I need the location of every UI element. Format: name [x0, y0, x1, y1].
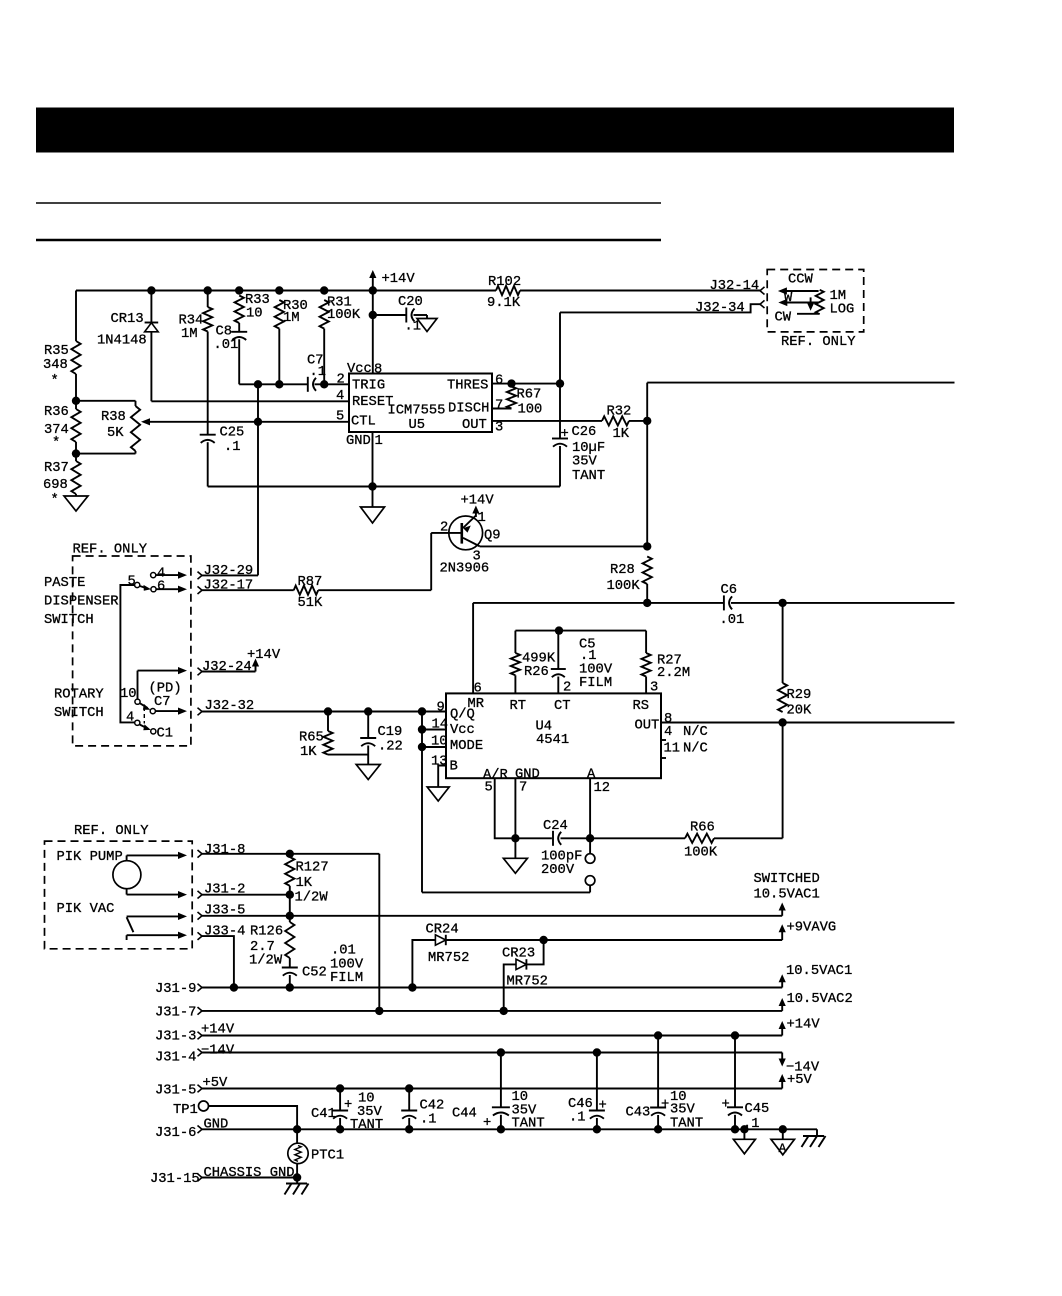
capacitor C7	[307, 354, 326, 392]
junction GND-TP1	[293, 1125, 301, 1133]
wire J33-5 net	[202, 915, 782, 917]
svg-text:8: 8	[374, 363, 382, 378]
svg-text:5: 5	[336, 410, 344, 425]
pin 14 label	[432, 718, 449, 733]
junction J31-9-J33-4	[230, 983, 238, 991]
wire Q9 base	[430, 533, 432, 590]
svg-text:C20: C20	[398, 295, 423, 310]
resistor R28	[607, 557, 652, 595]
ground bottom	[733, 1129, 755, 1154]
svg-text:+: +	[344, 1098, 352, 1113]
svg-text:2: 2	[337, 372, 345, 387]
resistor R30	[275, 299, 308, 384]
svg-text:+: +	[483, 1116, 491, 1131]
svg-text:51K: 51K	[298, 596, 324, 611]
svg-text:SWITCH: SWITCH	[54, 706, 104, 721]
svg-text:SWITCHED: SWITCHED	[754, 872, 820, 887]
wire GND net	[202, 1128, 817, 1130]
label CHASSIS GND	[204, 1166, 295, 1181]
connector J31-3	[155, 1030, 202, 1045]
switch S2 contact 10	[120, 687, 140, 704]
svg-text:*: *	[51, 492, 59, 508]
svg-text:R32: R32	[607, 405, 632, 420]
wire Vcc column	[372, 291, 374, 374]
wire J31-2 net	[202, 894, 290, 896]
switch box REF ONLY label	[73, 543, 148, 558]
pin 3 label U4	[650, 681, 658, 696]
capacitor C8	[214, 323, 248, 353]
resistor R37	[43, 461, 81, 508]
junction J31-9-CR24	[408, 983, 416, 991]
junction CR24-CR23	[539, 936, 547, 944]
wire J31-9 net	[202, 987, 782, 989]
svg-text:TANT: TANT	[572, 469, 605, 484]
wire CR23 net	[504, 940, 544, 1011]
label Vcc 8	[347, 362, 382, 378]
wire contact4 out	[156, 572, 187, 579]
wire DISCH pin	[492, 408, 512, 410]
switch pik vac bottom	[127, 932, 187, 940]
junction J31-3-C43	[654, 1031, 662, 1039]
svg-text:R87: R87	[298, 575, 323, 590]
node 10.5VAC2	[779, 992, 853, 1011]
svg-text:R126: R126	[250, 925, 283, 940]
svg-text:+14V: +14V	[382, 272, 416, 287]
wire J32-24 net	[202, 671, 256, 673]
resistor R102	[487, 275, 521, 311]
svg-text:10.5VAC2: 10.5VAC2	[787, 992, 853, 1007]
junction R127-J31-2	[286, 891, 294, 899]
svg-text:1N4148: 1N4148	[97, 334, 147, 349]
svg-text:R37: R37	[44, 461, 69, 476]
resistor R34	[179, 291, 213, 343]
capacitor C24	[541, 819, 582, 878]
transistor Q9 2N3906	[431, 494, 500, 577]
junction rail-R34	[204, 286, 212, 294]
svg-text:C24: C24	[543, 819, 568, 834]
svg-text:CCW: CCW	[788, 273, 814, 288]
svg-text:1: 1	[478, 511, 486, 526]
svg-text:2.2M: 2.2M	[657, 666, 690, 681]
junction C5 top	[555, 626, 563, 634]
svg-text:MODE: MODE	[450, 739, 483, 754]
switch S1 contact 5	[128, 575, 140, 590]
svg-text:−14V: −14V	[201, 1044, 235, 1059]
connector J32-29	[198, 564, 254, 579]
pin 4 stub	[661, 739, 666, 741]
connector J32-24	[198, 660, 252, 675]
pin 3 label	[495, 421, 503, 436]
pin 5 label U4	[485, 781, 493, 796]
svg-text:5K: 5K	[107, 426, 124, 441]
switch S2 contact C1	[151, 727, 173, 742]
pin 11 stub	[661, 757, 666, 759]
resistor R66	[684, 821, 783, 861]
resistor R29	[778, 603, 812, 719]
svg-text:THRES: THRES	[447, 379, 488, 394]
node +14V arrow	[369, 270, 415, 291]
capacitor C45	[722, 1036, 770, 1133]
pin 2 label U4	[563, 681, 571, 696]
junction R35-R36	[72, 397, 80, 405]
pin 10 label	[431, 735, 448, 750]
ground U5 gnd	[361, 487, 385, 524]
label +14V rail	[201, 1023, 235, 1038]
svg-text:+: +	[722, 1098, 730, 1113]
wire J32-34 net	[560, 304, 760, 312]
svg-text:J32-17: J32-17	[204, 579, 254, 594]
junction Q9 collector node	[643, 542, 651, 550]
svg-text:100K: 100K	[607, 579, 641, 594]
junction OUT-R29	[778, 718, 786, 726]
diode CR23	[502, 947, 548, 990]
pin 7 label	[495, 398, 503, 413]
connector J32-32	[198, 699, 255, 715]
junction THRES-C26col	[556, 379, 564, 387]
svg-text:RT: RT	[510, 699, 527, 714]
wire R38 bottom	[76, 451, 136, 454]
svg-text:J31-8: J31-8	[204, 843, 245, 858]
svg-text:C6: C6	[721, 583, 738, 598]
svg-text:100K: 100K	[684, 846, 718, 861]
ground U4 gnd	[503, 838, 527, 873]
junction CTL-J32-29	[254, 418, 262, 426]
svg-text:.1: .1	[224, 440, 241, 455]
junction rail-+14V	[369, 286, 377, 294]
svg-text:B: B	[450, 760, 458, 775]
svg-text:14: 14	[432, 718, 449, 733]
pin 2 label	[337, 372, 345, 387]
node SWITCHED 10.5VAC1	[754, 872, 820, 916]
connector J31-9	[155, 982, 202, 997]
svg-text:RS: RS	[633, 699, 650, 714]
svg-text:10.5VAC1: 10.5VAC1	[754, 888, 820, 903]
svg-text:PASTE: PASTE	[44, 576, 85, 591]
label GND rail	[204, 1118, 229, 1133]
wire to test pins	[422, 885, 590, 892]
svg-text:R66: R66	[690, 821, 715, 836]
resistor R32	[602, 405, 631, 443]
wire switch common	[120, 585, 134, 722]
title bar	[36, 108, 954, 153]
svg-text:+14V: +14V	[247, 648, 281, 663]
wire J31-15 net	[202, 1177, 297, 1179]
svg-text:J31-7: J31-7	[155, 1006, 196, 1021]
svg-text:DISPENSER: DISPENSER	[44, 595, 119, 610]
svg-text:CR24: CR24	[426, 923, 459, 938]
wire J32-32 to pins	[421, 712, 423, 893]
svg-text:1: 1	[375, 434, 383, 449]
svg-text:7: 7	[495, 398, 503, 413]
junction GND-C42	[405, 1125, 413, 1133]
wire contactC7 out	[155, 708, 187, 715]
label -14V rail	[201, 1044, 235, 1059]
svg-text:11: 11	[664, 742, 681, 757]
switch S1 blade	[140, 585, 151, 591]
svg-text:+5V: +5V	[787, 1073, 813, 1088]
svg-text:35V: 35V	[670, 1103, 696, 1118]
junction C6 node left	[643, 599, 651, 607]
wire J31-4 net	[202, 1052, 782, 1054]
svg-text:4: 4	[664, 725, 672, 740]
wire Q9 collector	[480, 545, 647, 547]
svg-text:REF. ONLY: REF. ONLY	[74, 824, 149, 839]
svg-text:.1: .1	[743, 1117, 760, 1132]
wire pin7 GND	[514, 778, 516, 838]
svg-text:CR23: CR23	[502, 947, 535, 962]
svg-text:R67: R67	[517, 388, 542, 403]
svg-text:DISCH: DISCH	[448, 402, 489, 417]
label PD	[149, 681, 182, 697]
svg-text:TANT: TANT	[350, 1118, 383, 1133]
junction R32 node	[643, 417, 651, 425]
junction rail-R31	[320, 286, 328, 294]
node +14V J32-24	[247, 648, 281, 672]
wire TRIG net	[239, 383, 349, 385]
connector J33-4	[198, 925, 246, 940]
pin 6 label	[495, 373, 503, 388]
wire TP1	[209, 1106, 298, 1129]
svg-text:CTL: CTL	[351, 415, 376, 430]
junction J31-8-R127	[286, 850, 294, 858]
svg-text:C26: C26	[572, 425, 597, 440]
svg-text:R36: R36	[44, 405, 69, 420]
svg-text:TANT: TANT	[670, 1117, 703, 1132]
junction rail-CR13	[147, 286, 155, 294]
svg-text:R28: R28	[610, 563, 635, 578]
svg-text:10.5VAC1: 10.5VAC1	[786, 964, 852, 979]
resistor R36	[44, 405, 81, 451]
op-amp U5 ICM7555	[346, 374, 492, 450]
junction GND-C43	[654, 1125, 662, 1133]
resistor R26	[511, 631, 556, 694]
pin 4 label U4	[664, 724, 708, 740]
svg-text:200V: 200V	[541, 863, 575, 878]
junction J33-5-R126	[286, 912, 294, 920]
label rotary switch	[54, 688, 104, 722]
svg-text:3: 3	[650, 681, 658, 696]
svg-text:TP1: TP1	[173, 1103, 198, 1118]
resistor R31	[320, 296, 361, 385]
diode CR24	[426, 923, 470, 967]
svg-text:J31-6: J31-6	[155, 1126, 196, 1141]
svg-text:C43: C43	[626, 1106, 651, 1121]
svg-text:+: +	[561, 427, 569, 442]
connector J31-6	[155, 1126, 202, 1142]
svg-text:J31-5: J31-5	[155, 1084, 196, 1099]
svg-text:Vcc: Vcc	[450, 723, 475, 738]
junction GND-C41	[336, 1125, 344, 1133]
svg-text:J31-9: J31-9	[155, 982, 196, 997]
switch S1 contact 6	[151, 580, 165, 595]
junction pin14	[418, 725, 426, 733]
wire OUT U4 net	[661, 722, 955, 724]
svg-text:CT: CT	[554, 699, 571, 714]
svg-text:LOG: LOG	[830, 303, 855, 318]
svg-text:C7: C7	[154, 695, 171, 710]
wire pin 14 Vcc	[422, 729, 446, 731]
pin 8 label U4	[664, 712, 672, 727]
svg-text:U5: U5	[409, 418, 426, 433]
junction TRIG-R30	[275, 380, 283, 388]
svg-text:TRIG: TRIG	[352, 379, 385, 394]
ground left column	[64, 496, 88, 511]
junction GND-gnd	[740, 1125, 748, 1133]
svg-text:9: 9	[437, 701, 445, 716]
pik box REF ONLY label	[74, 824, 149, 839]
junction J32-32-R65	[324, 707, 332, 715]
wire +14V top rail	[76, 290, 760, 292]
svg-text:C42: C42	[420, 1099, 445, 1114]
svg-text:R65: R65	[299, 731, 324, 746]
resistor R65	[299, 712, 333, 761]
wire THRES net	[492, 383, 560, 385]
connector J33-5	[198, 904, 246, 920]
capacitor C42	[401, 1089, 444, 1130]
svg-text:FILM: FILM	[330, 971, 363, 986]
svg-text:100K: 100K	[327, 308, 361, 323]
label +5V rail	[203, 1076, 229, 1091]
wire J31-3 net	[202, 1035, 782, 1037]
resistor R35	[43, 341, 81, 389]
svg-text:J33-4: J33-4	[204, 925, 245, 940]
svg-text:R29: R29	[787, 688, 812, 703]
node +14V right	[779, 1018, 821, 1036]
svg-text:.01: .01	[214, 338, 239, 353]
svg-text:Vcc: Vcc	[347, 362, 372, 377]
svg-text:13: 13	[431, 755, 448, 770]
svg-text:4541: 4541	[536, 733, 569, 748]
switch S2 contact C7	[150, 709, 155, 714]
wire J33-4 net	[202, 936, 234, 987]
svg-text:N/C: N/C	[683, 741, 708, 757]
wire R29-R66	[782, 723, 784, 839]
svg-text:A: A	[779, 1141, 787, 1156]
wire RT-RS top	[515, 630, 646, 632]
wire R65-C19 bottom	[328, 746, 368, 765]
junction rail-R30	[275, 286, 283, 294]
wire pin 10 MODE	[422, 746, 446, 748]
wire MR pin6	[472, 603, 474, 694]
switch pik vac blade	[127, 917, 134, 932]
svg-text:.22: .22	[378, 740, 403, 755]
junction pin10	[418, 743, 426, 751]
svg-text:OUT: OUT	[462, 418, 487, 433]
pin 6 label U4	[474, 682, 482, 697]
svg-text:1K: 1K	[613, 427, 630, 442]
connector J31-7	[155, 1006, 202, 1021]
svg-text:J31-4: J31-4	[155, 1051, 196, 1066]
svg-text:C1: C1	[157, 727, 174, 742]
junction GND-A	[779, 1125, 787, 1133]
junction J31-3-C45	[731, 1031, 739, 1039]
svg-text:J31-3: J31-3	[155, 1030, 196, 1045]
junction GND-C45	[731, 1125, 739, 1133]
wire RESET net	[151, 400, 349, 402]
svg-text:1/2W: 1/2W	[295, 890, 329, 906]
capacitor C5	[551, 631, 613, 694]
svg-text:5: 5	[128, 575, 136, 590]
wire pin5 A/R	[495, 778, 552, 838]
wire OUT U5 net	[492, 420, 647, 422]
svg-text:2: 2	[440, 521, 448, 536]
connector J31-5	[155, 1084, 202, 1099]
svg-text:MR752: MR752	[428, 951, 469, 966]
svg-text:20K: 20K	[787, 704, 813, 719]
switch S1 contact 4	[151, 567, 166, 582]
switch gang link	[143, 707, 145, 724]
wire C26 column	[559, 312, 561, 486]
wire PD branch	[138, 667, 188, 699]
svg-text:PTC1: PTC1	[311, 1149, 344, 1164]
connector J31-15	[150, 1172, 202, 1187]
wire +9VAVG net	[412, 940, 782, 988]
junction J32-32-C19	[364, 707, 372, 715]
svg-text:OUT: OUT	[635, 719, 660, 734]
svg-text:J32-14: J32-14	[710, 279, 760, 294]
wire R32node-R28	[646, 421, 648, 547]
svg-text:+9VAVG: +9VAVG	[787, 921, 837, 936]
wire CTL net	[149, 421, 349, 423]
svg-text:PIK PUMP: PIK PUMP	[57, 850, 123, 865]
resistor R87	[294, 575, 323, 611]
label J32-29 wire	[0, 0, 1, 1]
svg-text:9.1K: 9.1K	[487, 296, 521, 311]
junction J31-4-C46	[593, 1048, 601, 1056]
connector J31-4	[155, 1049, 202, 1066]
connector J31-8	[198, 843, 246, 858]
svg-text:ICM7555: ICM7555	[388, 404, 446, 419]
capacitor C20	[373, 295, 427, 335]
svg-text:C45: C45	[745, 1102, 770, 1117]
ground pin13	[427, 787, 449, 801]
wire J32-14 net	[520, 290, 760, 292]
svg-text:C52: C52	[302, 966, 327, 981]
wire pump top	[127, 852, 187, 861]
resistor R33	[235, 293, 270, 323]
svg-text:.01: .01	[720, 613, 745, 628]
junction J32-32-vert	[418, 707, 426, 715]
svg-text:GND: GND	[346, 434, 371, 449]
svg-text:6: 6	[474, 682, 482, 697]
svg-text:REF. ONLY: REF. ONLY	[781, 335, 856, 350]
switch pik vac top	[127, 913, 187, 920]
junction rail-R33	[235, 286, 243, 294]
svg-text:C25: C25	[220, 426, 245, 441]
svg-text:C44: C44	[452, 1107, 477, 1122]
capacitor C52	[282, 944, 364, 988]
wire U5 gnd pin	[372, 432, 374, 487]
connector J32-14	[710, 279, 765, 295]
node test pin upper	[585, 838, 595, 863]
wire R38 top	[76, 401, 136, 406]
svg-text:Q9: Q9	[484, 529, 501, 544]
svg-text:1M: 1M	[181, 327, 198, 342]
svg-text:R38: R38	[101, 410, 126, 425]
svg-text:CW: CW	[775, 311, 792, 326]
svg-text:Q/Q: Q/Q	[450, 707, 475, 723]
svg-text:+: +	[599, 1099, 607, 1114]
resistor R126	[249, 922, 294, 969]
svg-text:10: 10	[246, 307, 263, 322]
junction TRIG-R31	[320, 380, 328, 388]
svg-text:+14V: +14V	[461, 494, 495, 509]
svg-text:PIK VAC: PIK VAC	[57, 902, 115, 917]
svg-text:J32-29: J32-29	[204, 564, 254, 579]
svg-text:698: 698	[43, 478, 68, 493]
junction J31-5-C41	[336, 1084, 344, 1092]
capacitor C46	[568, 1053, 607, 1130]
